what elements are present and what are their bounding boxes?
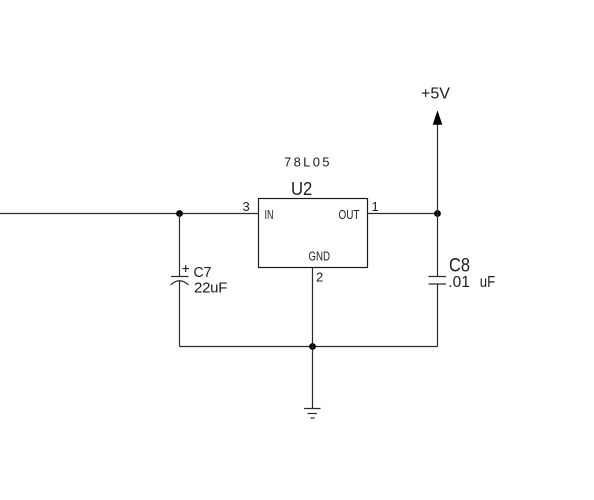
op-amp U2 body (78L05 regulator box)	[259, 199, 368, 268]
wire C7 down to bottom net	[179, 281, 181, 347]
svg-text:2: 2	[316, 270, 323, 285]
svg-text:.01: .01	[448, 274, 470, 291]
wire OUT pin to +5V node	[368, 213, 438, 215]
wire +5V node up to arrow	[437, 124, 439, 214]
power symbol +5V arrow	[433, 111, 442, 125]
wire input node down to C7	[179, 214, 181, 277]
wire GND pin down through node to ground symbol	[312, 268, 314, 408]
ground	[304, 409, 321, 419]
junction input node	[176, 210, 183, 217]
wire input net (left horizontal into IN pin)	[0, 213, 259, 215]
wire +5V node down to C8	[437, 214, 439, 277]
svg-text:22uF: 22uF	[194, 280, 227, 297]
svg-text:78L05: 78L05	[284, 155, 330, 170]
junction ground node	[309, 343, 316, 350]
svg-text:IN: IN	[265, 207, 274, 222]
wire C8 down to bottom net	[437, 284, 439, 347]
svg-text:GND: GND	[309, 249, 331, 264]
svg-text:OUT: OUT	[339, 207, 360, 222]
svg-text:3: 3	[243, 199, 250, 214]
svg-text:C7: C7	[194, 264, 212, 281]
capacitor C8	[429, 277, 447, 285]
capacitor C7 (polarized)	[171, 265, 190, 285]
wire bottom net (ground bus)	[180, 346, 438, 348]
svg-text:+5V: +5V	[421, 86, 450, 103]
svg-text:uF: uF	[480, 274, 495, 291]
junction +5V node	[434, 210, 441, 217]
svg-text:U2: U2	[291, 178, 312, 199]
svg-text:1: 1	[372, 199, 379, 214]
